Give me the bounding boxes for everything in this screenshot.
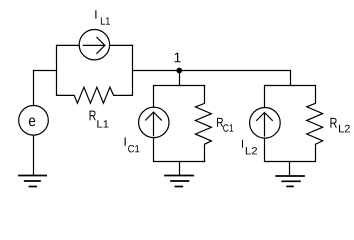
wire: C1 block left top xyxy=(153,86,155,108)
current source I_L2 circle xyxy=(250,108,281,139)
resistor R_L2 xyxy=(307,86,323,162)
label I_L2 I: "I" xyxy=(242,140,243,148)
ammeter I_L1 arrow xyxy=(83,44,105,46)
ground (under L2 block) xyxy=(276,176,304,186)
wire: top bus node 1 xyxy=(133,70,291,72)
label R_C1 R: "R" xyxy=(217,118,223,127)
current source I_C1 arrow xyxy=(153,113,155,136)
wire: L2 block left top xyxy=(264,86,266,108)
label I_L1 sub: "L1" xyxy=(101,17,110,24)
label R_L1 sub: "L1" xyxy=(97,120,108,127)
voltage source e xyxy=(19,106,49,136)
wire: e to ground xyxy=(33,135,35,175)
current source I_L2 arrow xyxy=(264,114,266,137)
label I_L2 sub: "L2" xyxy=(246,147,257,154)
node 1 junction dot xyxy=(177,68,182,73)
wire: L1 top branch left xyxy=(57,44,80,46)
wire: C1 block left bottom xyxy=(153,138,155,162)
label I_C1 sub: "C1" xyxy=(128,145,139,152)
label I_C1 I: "I" xyxy=(125,137,126,145)
label R_L2 R: "R" xyxy=(330,118,336,128)
wire: L2 block bottom bar xyxy=(265,161,315,163)
wire: L2 block left bottom xyxy=(264,138,266,161)
label R_C1 sub: "C1" xyxy=(223,124,233,131)
wire: L1 block right side xyxy=(132,45,134,95)
resistor R_C1 xyxy=(195,86,211,162)
label e: "e" xyxy=(29,117,35,126)
wire: drop from node 1 to C1 block xyxy=(179,71,181,86)
ground (under e) xyxy=(19,176,46,187)
ground (under C1 block) xyxy=(165,176,193,187)
wire: drop from bus to L2 block xyxy=(290,71,292,86)
wire: C1 ground stem xyxy=(179,162,181,176)
wire: L2 ground stem xyxy=(289,162,291,177)
wire: left rail horizontal xyxy=(34,70,57,72)
current source I_C1 circle xyxy=(139,107,169,137)
wire: L1 top branch right xyxy=(110,44,133,46)
label R_L2 sub: "L2" xyxy=(339,125,350,133)
label node 1: "1" xyxy=(175,53,181,63)
resistor R_L1 xyxy=(57,87,133,103)
ammeter I_L1 circle xyxy=(79,30,109,60)
label I_L1 I: "I" xyxy=(95,10,96,18)
wire: left rail vertical xyxy=(33,71,35,106)
wire: L2 block top bar xyxy=(265,85,315,87)
label R_L1 R: "R" xyxy=(90,111,96,121)
wire: C1 block bottom bar xyxy=(154,161,205,163)
wire: C1 block top bar xyxy=(154,85,205,87)
wire: L1 block left side xyxy=(56,45,58,95)
